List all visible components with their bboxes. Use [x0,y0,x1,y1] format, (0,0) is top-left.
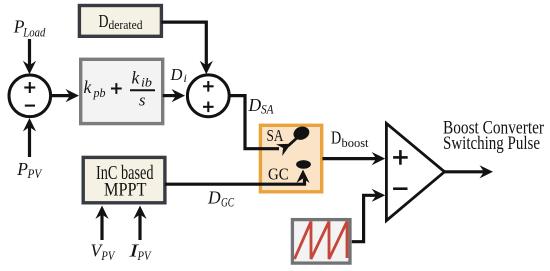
svg-text:Load: Load [22,25,45,40]
svg-text:P: P [16,159,28,179]
svg-text:k: k [84,77,93,97]
svg-text:s: s [139,90,145,109]
svg-text:D: D [248,95,262,115]
svg-text:Switching Pulse: Switching Pulse [443,133,540,154]
svg-text:ib: ib [141,76,152,90]
svg-text:k: k [132,68,141,88]
svg-text:D: D [207,188,221,208]
svg-text:boost: boost [342,135,369,150]
svg-text:SA: SA [261,103,274,117]
svg-text:D: D [331,128,341,148]
svg-text:D: D [99,11,109,31]
svg-text:GC: GC [221,195,234,210]
svg-text:GC: GC [268,165,289,184]
svg-text:derated: derated [109,18,144,32]
svg-text:D: D [170,65,183,84]
svg-text:MPPT: MPPT [104,180,147,201]
svg-text:i: i [184,71,187,85]
svg-text:PV: PV [27,166,43,181]
svg-text:pb: pb [93,85,106,100]
svg-text:PV: PV [137,248,152,263]
svg-text:SA: SA [267,126,284,145]
svg-text:PV: PV [101,248,116,263]
